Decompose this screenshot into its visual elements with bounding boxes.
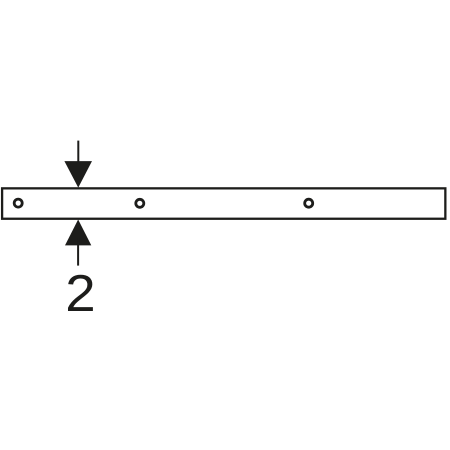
- lower arrow shaft: [77, 238, 79, 266]
- upper arrow shaft: [77, 141, 79, 170]
- hole 2: [136, 199, 144, 207]
- hole 3: [305, 199, 313, 207]
- lower arrowhead: [65, 220, 91, 246]
- hole 1: [14, 199, 22, 207]
- bar (rail profile): [2, 188, 445, 218]
- upper arrowhead: [64, 161, 92, 188]
- svg-text:2: 2: [65, 264, 95, 322]
